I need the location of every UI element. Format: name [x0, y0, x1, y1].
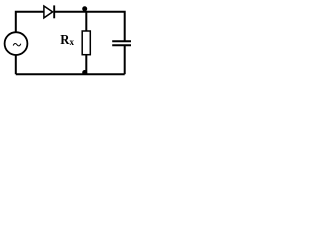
resistor Rx box — [82, 31, 90, 55]
node junction dot bottom — [82, 70, 87, 75]
wire right-bottom: capacitor bottom to bottom rail — [124, 46, 126, 74]
svg-text:x: x — [70, 37, 75, 47]
capacitor C1 bottom plate — [112, 44, 132, 46]
AC source V1 — [5, 32, 28, 55]
AC sine symbol — [13, 44, 21, 46]
diode D1 cathode bar — [53, 5, 55, 18]
wire: junction down to resistor top — [85, 12, 87, 32]
wire top-right: diode cathode to top-right corner — [55, 12, 125, 41]
node junction dot top — [82, 6, 87, 11]
diode D1 triangle — [44, 6, 53, 18]
wire left-bottom: source bottom to bottom rail — [15, 55, 17, 74]
wire: resistor bottom to bottom rail — [85, 55, 87, 75]
wire top-left: source top to diode anode — [16, 12, 44, 32]
capacitor C1 top plate — [112, 40, 132, 42]
wire bottom rail — [16, 73, 125, 75]
